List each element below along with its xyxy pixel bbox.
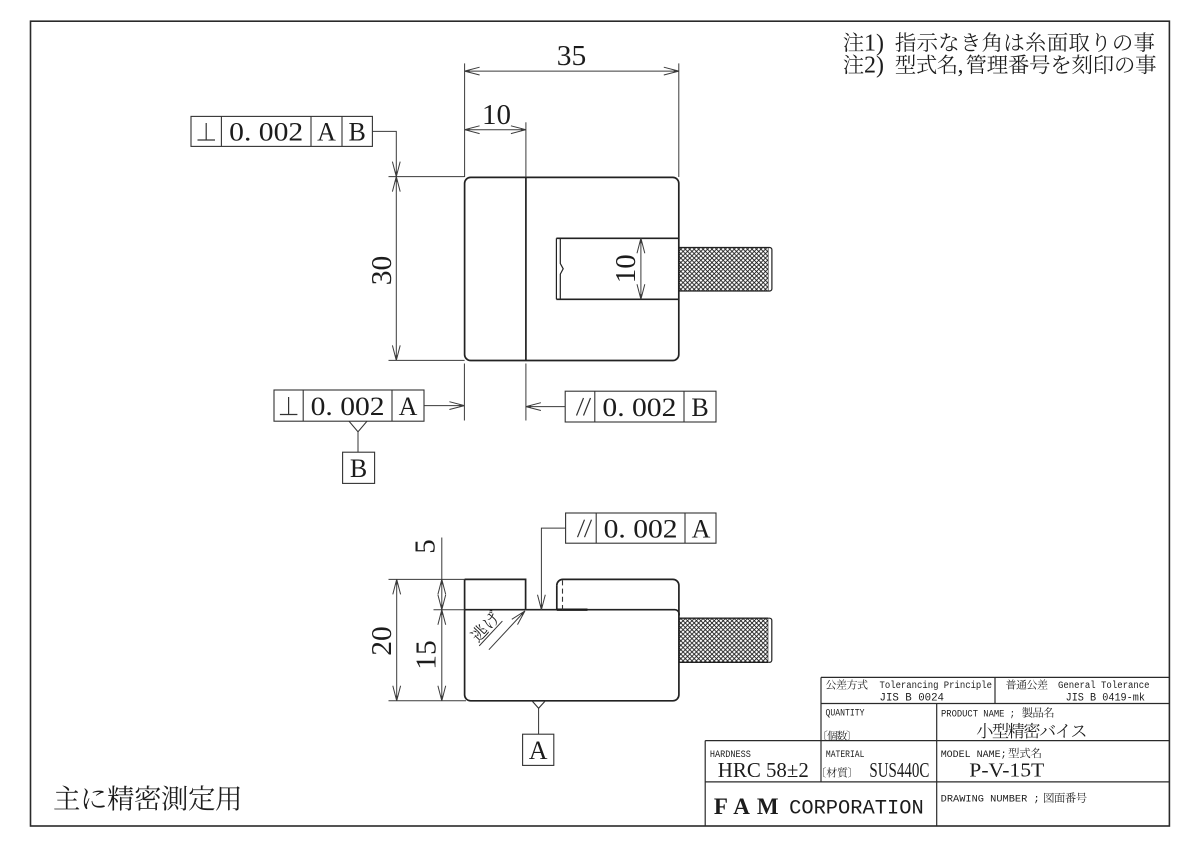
svg-text:HRC 58±2: HRC 58±2 [718, 758, 809, 782]
svg-text:A: A [529, 736, 548, 765]
svg-text:P-V-15T: P-V-15T [969, 759, 1044, 781]
svg-text:A: A [692, 515, 711, 544]
title block grid [821, 676, 1169, 678]
top view: screw end cap [769, 248, 772, 292]
leader arrow to left edge extension [424, 405, 464, 407]
svg-text:A: A [317, 118, 336, 147]
dimension 30 extension lines [389, 176, 465, 178]
perpendicularity symbol [198, 123, 216, 140]
dimension 10 (slot height) [640, 238, 642, 299]
dimension 10 (jaw width) [465, 129, 526, 131]
svg-text:PRODUCT NAME ;: PRODUCT NAME ; [941, 709, 1015, 720]
feature control frame: parallelism 0.002 A [566, 513, 716, 543]
svg-text:20: 20 [366, 626, 398, 656]
dimension 35 extension lines [464, 63, 466, 177]
svg-text:0. 002: 0. 002 [602, 393, 676, 422]
svg-text:Tolerancing Principle: Tolerancing Principle [880, 680, 993, 692]
leader from frame to top extension line [372, 131, 396, 176]
extension line below jaw split line [525, 364, 527, 421]
svg-text:2): 2) [864, 53, 884, 79]
top view: slot bottom edge [556, 298, 678, 300]
note 1 [844, 32, 864, 52]
svg-text:General Tolerance: General Tolerance [1058, 680, 1150, 692]
svg-text:CORPORATION: CORPORATION [789, 798, 924, 821]
relief (nige) text [467, 609, 503, 646]
side view: slot floor visible edge (darker) [557, 609, 588, 611]
parallelism symbol [577, 398, 591, 416]
svg-text:,: , [958, 53, 964, 79]
dimension 10 (jaw width) extension line [525, 122, 527, 177]
feature control frame: parallelism 0.002 B [565, 391, 716, 422]
product name: small precision vise [977, 723, 1086, 739]
general tolerance cell [1006, 679, 1048, 689]
perpendicularity symbol [280, 397, 298, 415]
dimension 30 [395, 177, 397, 361]
side view: fixed jaw left face [556, 585, 558, 609]
datum B symbol [349, 421, 367, 432]
top view: movable jaw split line [525, 177, 527, 360]
top view: knurled screw shaft [679, 248, 769, 292]
svg-text:30: 30 [366, 256, 398, 286]
top view: vise body outline [465, 177, 679, 360]
svg-text:B: B [349, 118, 366, 147]
parallelism symbol [578, 520, 592, 538]
dimension 20 [396, 579, 398, 700]
svg-text:0. 002: 0. 002 [229, 118, 303, 147]
feature control frame: perpendicularity 0.002 A B [191, 116, 372, 146]
side view: left clamp jaw block [465, 579, 526, 609]
side view: step surface line [465, 610, 680, 616]
dimension 15 arrows [438, 610, 446, 625]
svg-text:SUS440C: SUS440C [869, 758, 929, 782]
top view: screw tip face with centre V notch [560, 238, 563, 299]
dimension 5 arrows [438, 579, 446, 594]
tolerancing principle cell [826, 679, 868, 689]
svg-text:35: 35 [557, 40, 587, 72]
svg-text:0. 002: 0. 002 [604, 515, 678, 544]
svg-text:MATERIAL: MATERIAL [826, 750, 865, 761]
side view: knurled screw shaft [679, 618, 768, 662]
leader arrow to jaw split extension [526, 406, 565, 408]
extension line step [434, 609, 465, 611]
side view: screw end cap [768, 618, 772, 662]
svg-text:10: 10 [482, 99, 511, 131]
note 2 [844, 55, 864, 75]
relief (nige) leader with arrow [489, 611, 525, 650]
svg-text:10: 10 [610, 254, 642, 283]
svg-text:0. 002: 0. 002 [311, 392, 385, 421]
svg-text:5: 5 [410, 539, 442, 554]
usage note: mainly for precision measurement [54, 785, 240, 810]
svg-text:A: A [399, 392, 418, 421]
svg-text:JIS B 0024: JIS B 0024 [880, 693, 945, 705]
side view: body outline [465, 579, 679, 700]
svg-text:JIS B 0419-mk: JIS B 0419-mk [1066, 693, 1146, 705]
svg-text:DRAWING NUMBER ;: DRAWING NUMBER ; [941, 795, 1040, 806]
datum A symbol [532, 701, 546, 709]
side view: hidden screw hole (dashed) [562, 580, 564, 609]
extension line bottom [389, 700, 467, 702]
extension line below body left edge [463, 364, 465, 421]
top view: slot left face [555, 238, 557, 299]
extension line jaw top [389, 578, 465, 580]
svg-text:B: B [691, 393, 708, 422]
top view: slot top edge [556, 237, 678, 239]
svg-text:FAM: FAM [714, 794, 779, 819]
feature control frame: perpendicularity 0.002 A [274, 390, 424, 421]
svg-text:B: B [350, 454, 367, 483]
svg-text:QUANTITY: QUANTITY [826, 709, 865, 720]
dimension 5 and 15 shared dimension line [441, 538, 443, 701]
leader from frame down to step surface [541, 528, 565, 610]
svg-text:15: 15 [411, 640, 443, 670]
dimension 35 [465, 70, 679, 72]
